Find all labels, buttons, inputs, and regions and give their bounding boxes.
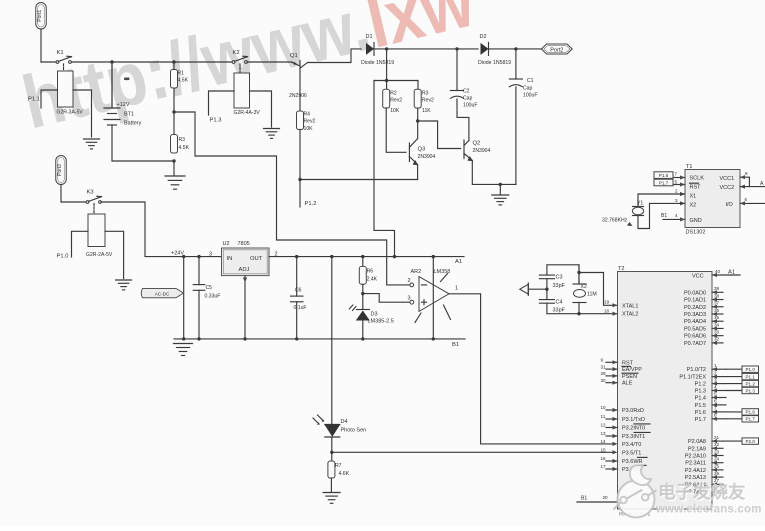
svg-text:OUT: OUT: [250, 256, 263, 262]
svg-text:P2.5A13: P2.5A13: [685, 475, 706, 481]
pin SCLK / net flag P1.6: [673, 177, 685, 179]
wire battery top: [111, 62, 113, 108]
op-amp A1 LM358: [419, 277, 449, 312]
wire oscillator supply: [386, 49, 388, 81]
svg-text:13: 13: [601, 431, 607, 436]
wire Y1 bottom loop: [638, 203, 685, 228]
svg-text:39: 39: [714, 286, 720, 291]
pin RST / net flag P1.7: [673, 184, 685, 186]
svg-text:11K: 11K: [422, 108, 431, 114]
pin P2.3A11: [712, 462, 723, 464]
svg-text:33pF: 33pF: [553, 308, 566, 314]
wire R3 bottom to ground: [173, 161, 175, 175]
svg-text:Rev2: Rev2: [390, 98, 402, 104]
svg-text:R6: R6: [367, 269, 374, 275]
photodiode D4 Photo Sen: [325, 424, 340, 426]
regulator U2 7805: [222, 248, 270, 276]
svg-text:Q1: Q1: [290, 53, 298, 59]
svg-text:K3: K3: [87, 190, 94, 196]
svg-text:7: 7: [714, 406, 717, 411]
ground arrow crystal: [520, 284, 529, 294]
svg-text:40: 40: [715, 269, 721, 274]
svg-text:37: 37: [714, 301, 720, 306]
svg-text:BT1: BT1: [124, 112, 134, 118]
svg-text:P0.1AD1: P0.1AD1: [684, 298, 706, 304]
svg-text:35: 35: [714, 315, 720, 320]
wire D4 to node: [331, 437, 333, 452]
svg-text:P1.7: P1.7: [745, 417, 755, 422]
wire relay K3 right pin to ground: [105, 231, 124, 278]
net flag P2.0: [723, 440, 742, 442]
port flag Port2: [541, 44, 572, 54]
resistor R3 11K: [414, 89, 421, 108]
svg-text:XTAL1: XTAL1: [622, 303, 638, 309]
svg-text:2N2906: 2N2906: [289, 93, 307, 99]
svg-text:30: 30: [601, 378, 607, 383]
svg-text:P1.2: P1.2: [695, 382, 706, 388]
node oscillator ground: [499, 183, 502, 186]
wire R2 top stub: [386, 81, 388, 90]
svg-text:P1.3: P1.3: [210, 118, 222, 124]
wire reference to op-amp plus: [363, 294, 409, 303]
svg-text:R7: R7: [335, 463, 342, 469]
node C5 top: [197, 255, 200, 258]
node C6 top: [295, 255, 298, 258]
wire op-amp output: [449, 294, 613, 444]
battery BT1 +12V: [111, 62, 113, 108]
node R3 bottom: [172, 159, 175, 162]
wire relay K1 left pin to P1.1: [41, 90, 58, 108]
svg-text:SCLK: SCLK: [690, 176, 705, 182]
svg-text:2: 2: [714, 370, 717, 375]
wire C3 branch: [547, 265, 579, 284]
capacitor C2 100uF: [456, 49, 458, 91]
wire +5V rail: [269, 256, 464, 258]
transistor Q1 2N2906: [299, 61, 301, 73]
wire K2 linkage: [239, 64, 241, 73]
node C2 tap: [455, 47, 458, 50]
node C6 ground: [295, 337, 298, 340]
net flag P1.0: [726, 368, 742, 370]
svg-text:10K: 10K: [390, 108, 400, 114]
svg-text:B1: B1: [452, 342, 459, 348]
wire Port3 stub: [60, 185, 62, 203]
svg-text:20: 20: [603, 495, 609, 500]
node oscillator +5V tap: [393, 255, 396, 258]
svg-text:6: 6: [745, 197, 748, 202]
svg-text:10: 10: [601, 405, 607, 410]
svg-text:100uF: 100uF: [523, 93, 537, 99]
svg-text:1: 1: [714, 363, 717, 368]
svg-text:X2: X2: [690, 203, 697, 209]
pin P2.6A14: [712, 483, 723, 485]
svg-text:C4: C4: [556, 300, 563, 306]
pin EA/VPP: [606, 368, 618, 370]
node C3/C4 midpoint: [545, 288, 548, 291]
svg-text:P1.6: P1.6: [659, 173, 669, 178]
svg-text:P1.7: P1.7: [695, 417, 706, 423]
switch K2: [232, 61, 235, 64]
svg-text:+12V: +12V: [117, 102, 130, 108]
pin P1.0/T2: [712, 368, 726, 370]
svg-text:P3.2INT0: P3.2INT0: [622, 426, 645, 432]
wire K3 to +24V rail: [101, 202, 222, 257]
wire R4 bottom: [299, 130, 301, 208]
pin P0.0AD0: [712, 291, 723, 293]
svg-text:3: 3: [714, 377, 717, 382]
node oscillator supply tap: [385, 47, 388, 50]
svg-text:P3.4/T0: P3.4/T0: [622, 442, 641, 448]
svg-text:11: 11: [601, 414, 606, 419]
svg-text:VCC1: VCC1: [720, 176, 735, 182]
svg-text:A: A: [760, 181, 764, 187]
resistor R1 4.5K: [171, 70, 178, 89]
wire VCC1 to VCC2: [749, 177, 765, 186]
svg-text:34: 34: [714, 322, 720, 327]
power flag AC-DC: [141, 289, 183, 298]
ground under relay K2: [264, 128, 280, 130]
svg-text:ADJ: ADJ: [239, 267, 250, 273]
svg-text:P0.7AD7: P0.7AD7: [684, 341, 706, 347]
svg-text:www.elecfans.com: www.elecfans.com: [655, 504, 762, 516]
pin GND 20 / net B1: [577, 501, 618, 503]
svg-text:D1: D1: [366, 34, 373, 40]
pin P3.6WR: [606, 460, 618, 462]
svg-text:P3.1/TxD: P3.1/TxD: [622, 417, 645, 423]
node ADJ ground: [243, 337, 246, 340]
svg-text:Cap: Cap: [523, 86, 533, 92]
svg-text:R4: R4: [304, 112, 311, 118]
svg-text:P3.3INT1: P3.3INT1: [622, 434, 645, 440]
svg-text:5: 5: [714, 391, 717, 396]
svg-text:R2: R2: [390, 91, 397, 97]
svg-text:16: 16: [601, 456, 607, 461]
svg-text:11M: 11M: [587, 291, 597, 297]
net flag P1.2: [726, 383, 742, 385]
svg-text:2.4K: 2.4K: [367, 277, 378, 283]
svg-text:X1: X1: [690, 194, 697, 200]
port flag Port1: [36, 3, 47, 30]
ground under relay K1: [84, 138, 100, 140]
svg-text:32: 32: [714, 337, 720, 342]
svg-text:P1.6: P1.6: [745, 410, 755, 415]
svg-text:P0.3AD3: P0.3AD3: [684, 312, 706, 318]
pin P2.5A13: [712, 476, 723, 478]
wire C3 to node: [546, 279, 548, 300]
pin P0.7AD7: [712, 342, 723, 344]
pin P3.3INT1: [606, 435, 618, 437]
transistor Q2 2N3904: [463, 140, 465, 159]
svg-text:2N3904: 2N3904: [418, 154, 436, 160]
wire node to R7: [331, 452, 333, 461]
svg-text:GND: GND: [690, 218, 702, 224]
svg-text:2: 2: [408, 278, 411, 284]
pin P1.7: [712, 418, 726, 420]
svg-text:D3: D3: [371, 312, 378, 318]
svg-text:P1.4: P1.4: [695, 396, 706, 402]
svg-text:Rev2: Rev2: [304, 119, 316, 125]
node R1 top: [172, 60, 175, 63]
wire coupling to Q2 base: [418, 121, 461, 149]
svg-text:D4: D4: [341, 419, 348, 425]
node D3 ground: [361, 337, 364, 340]
wire ground stem: [499, 184, 501, 194]
svg-text:P3.6WR: P3.6WR: [622, 459, 643, 465]
svg-text:G2R-4A-3V: G2R-4A-3V: [234, 110, 261, 116]
net flag P1.1: [726, 376, 742, 378]
svg-text:RST: RST: [622, 360, 634, 366]
net flag P1.6: [726, 411, 742, 413]
wire AC-DC stub: [183, 257, 185, 339]
svg-text:T1: T1: [686, 164, 692, 170]
svg-text:AC-DC: AC-DC: [155, 292, 170, 297]
pin P0.5AD5: [712, 327, 723, 329]
svg-text:24: 24: [714, 457, 720, 462]
watermark diagonal url text: [15, 0, 482, 144]
wire base node to Q3 emitter: [300, 179, 418, 181]
wire relay K1 right pin to ground: [73, 90, 92, 137]
wire R3 bottom to Q3 collector: [417, 108, 419, 121]
svg-text:C5: C5: [206, 285, 213, 291]
resistor R4 10K: [297, 111, 304, 130]
stray mark: [124, 78, 130, 81]
node crystal bottom: [577, 312, 580, 315]
wire R2 bottom to Q3 base: [386, 108, 406, 152]
pin XTAL1: [613, 303, 618, 307]
wire XTAL1 branch: [579, 273, 618, 306]
pin P2.0A8: [712, 440, 723, 442]
svg-text:P1.2: P1.2: [745, 381, 755, 386]
svg-text:26: 26: [714, 471, 720, 476]
wire K2 to Q1: [247, 61, 292, 63]
pin VCC 40: [712, 274, 740, 276]
svg-text:10K: 10K: [304, 126, 314, 132]
svg-text:22: 22: [714, 442, 720, 447]
svg-text:P0.5AD5: P0.5AD5: [684, 326, 706, 332]
svg-text:P1.3: P1.3: [745, 388, 755, 393]
svg-text:VCC: VCC: [692, 274, 704, 280]
svg-text:U2: U2: [223, 241, 230, 247]
wire D1 to D2: [372, 48, 478, 50]
wire C4 bottom: [547, 303, 618, 314]
node AC-DC ground: [182, 337, 185, 340]
net flag P1.3: [726, 390, 742, 392]
crystal Y1 32.768KHz: [638, 194, 685, 207]
wire D4 node to P3.5: [332, 451, 613, 453]
pin XTAL2: [613, 312, 618, 316]
wire C6 bottom: [296, 302, 298, 339]
capacitor C1 100uF: [515, 49, 517, 79]
switch K3: [86, 201, 89, 204]
watermark elecfans text: [655, 482, 763, 517]
wire K3 linkage: [93, 204, 95, 215]
svg-text:B1: B1: [661, 213, 667, 219]
wire U2 ADJ to ground rail: [244, 276, 246, 339]
relay K1 coil G2R-3A-5V: [58, 71, 74, 107]
pin PSEN: [606, 375, 618, 377]
wire relay K2 right pin to ground: [250, 91, 272, 127]
svg-text:5: 5: [675, 180, 678, 185]
wire K1 linkage: [63, 64, 65, 71]
svg-text:25: 25: [714, 464, 720, 469]
svg-text:P0.0AD0: P0.0AD0: [684, 290, 706, 296]
wire Q1 base to R4: [299, 72, 301, 111]
svg-text:12: 12: [601, 423, 607, 428]
svg-text:0.1uF: 0.1uF: [294, 305, 307, 311]
svg-text:K1: K1: [57, 50, 64, 56]
wire R2/R3 top bracket: [374, 80, 418, 82]
capacitor C5 0.33uF: [193, 284, 205, 286]
pin P0.1AD1: [712, 299, 723, 301]
pin X2: [680, 201, 685, 205]
svg-text:P2.4A12: P2.4A12: [685, 468, 706, 474]
wire divider tap to comparator: [174, 112, 409, 285]
pin P1.1/T2EX: [712, 376, 726, 378]
pin GND 4 / net B1: [663, 218, 685, 220]
node C1 tap: [514, 47, 517, 50]
pin X1: [680, 192, 685, 196]
svg-text:38: 38: [714, 293, 720, 298]
svg-text:P1.0/T2: P1.0/T2: [687, 367, 706, 373]
svg-text:2: 2: [675, 189, 678, 194]
svg-text:XTAL2: XTAL2: [622, 312, 638, 318]
wire R1 bottom to node: [173, 88, 175, 135]
node R2 top: [385, 79, 388, 82]
pin P3.0RxD: [606, 409, 618, 411]
svg-text:3: 3: [675, 198, 678, 203]
wire top rail left (y=62): [41, 61, 57, 63]
pin P3.2INT0: [606, 427, 618, 429]
diode D3 LM385-2.5: [357, 309, 370, 311]
svg-text:6: 6: [714, 399, 717, 404]
resistor R2 10K: [383, 89, 390, 108]
wire ground rail: [174, 338, 465, 340]
svg-text:Q3: Q3: [418, 147, 426, 153]
svg-text:36: 36: [714, 308, 720, 313]
svg-text:P2.0: P2.0: [745, 439, 755, 444]
pin P2.2A10: [712, 455, 723, 457]
switch K1: [56, 61, 59, 64]
svg-text:33pF: 33pF: [553, 283, 566, 289]
svg-text:D2: D2: [480, 34, 487, 40]
wire crystal bottom stub: [578, 303, 580, 314]
node op-amp V- ground: [432, 337, 435, 340]
svg-text:14: 14: [601, 439, 607, 444]
node photodiode feed tap: [330, 255, 333, 258]
wire Port3 to K3: [61, 201, 87, 203]
svg-text:8: 8: [714, 413, 717, 418]
pin P1.6: [712, 411, 726, 413]
resistor R3 4.5K: [171, 135, 178, 154]
svg-text:P2.2A10: P2.2A10: [685, 454, 706, 460]
capacitor C3 33pF: [539, 274, 554, 276]
svg-text:P1.6: P1.6: [695, 410, 706, 416]
svg-text:R3: R3: [179, 137, 186, 143]
svg-text:PSEN: PSEN: [622, 374, 637, 380]
svg-text:P3.5/T1: P3.5/T1: [622, 450, 641, 456]
wire Q1 collector to D1: [308, 49, 362, 63]
svg-text:3: 3: [209, 252, 212, 258]
node C5 ground: [197, 337, 200, 340]
svg-text:G2R-2A-5V: G2R-2A-5V: [86, 252, 113, 258]
node XTAL1 branch: [577, 271, 580, 274]
svg-text:1: 1: [455, 286, 458, 292]
svg-text:P1.3: P1.3: [695, 389, 706, 395]
svg-text:C1: C1: [527, 78, 534, 84]
capacitor C4 33pF: [539, 299, 554, 301]
svg-text:4.6K: 4.6K: [339, 471, 350, 477]
wire D3 bottom: [362, 321, 364, 339]
node op-amp V+ tap: [432, 255, 435, 258]
svg-text:9: 9: [601, 358, 604, 363]
svg-text:P1.1: P1.1: [28, 97, 40, 103]
net flag P1.7: [726, 418, 742, 420]
svg-text:33: 33: [714, 329, 720, 334]
svg-text:P0.6AD6: P0.6AD6: [684, 334, 706, 340]
pin P0.6AD6: [712, 335, 723, 337]
svg-text:C6: C6: [295, 288, 302, 294]
node AC-DC tap: [182, 255, 185, 258]
pin P1.4: [712, 397, 726, 399]
svg-text:21: 21: [714, 435, 720, 440]
svg-text:18: 18: [604, 309, 610, 314]
svg-text:RST: RST: [690, 185, 702, 191]
svg-text:3: 3: [408, 296, 411, 302]
svg-text:IN: IN: [227, 256, 233, 262]
svg-text:K2: K2: [233, 50, 240, 56]
svg-text:R3: R3: [422, 91, 429, 97]
diode D1 1N5819: [366, 43, 374, 55]
svg-text:T2: T2: [618, 266, 624, 272]
svg-text:Cap: Cap: [463, 96, 473, 102]
svg-text:Photo Sen: Photo Sen: [341, 428, 367, 434]
pin P0.4AD4: [712, 320, 723, 322]
svg-text:100uF: 100uF: [463, 103, 477, 109]
svg-text:P0.2AD2: P0.2AD2: [684, 305, 706, 311]
pin P0.2AD2: [712, 306, 723, 308]
svg-text:P1.5: P1.5: [695, 403, 706, 409]
svg-text:R1: R1: [178, 71, 185, 77]
svg-text:Port2: Port2: [550, 47, 563, 53]
svg-text:Diode 1N5819: Diode 1N5819: [478, 60, 511, 66]
crystal X2 11M: [573, 283, 586, 285]
svg-text:电子发烧友: 电子发烧友: [658, 482, 746, 502]
resistor R6 2.4K: [359, 266, 366, 284]
svg-text:Y1: Y1: [637, 201, 643, 207]
svg-text:32.768KHz: 32.768KHz: [602, 218, 628, 224]
pin P3.1/TxD: [606, 418, 618, 420]
svg-text:P1.0: P1.0: [745, 367, 755, 372]
port flag Port3: [56, 156, 67, 185]
ground under relay K3: [116, 279, 132, 281]
pin P3.5/T1: [613, 450, 618, 454]
wire C6 top: [296, 257, 298, 297]
svg-text:A1: A1: [728, 270, 735, 276]
svg-text:VCC2: VCC2: [720, 185, 735, 191]
svg-text:7: 7: [675, 172, 678, 177]
pin ALE: [606, 382, 618, 384]
svg-text:C2: C2: [463, 89, 470, 95]
wire D2 to Port2: [488, 48, 541, 50]
wire relay K3 left pin to P1.0: [72, 231, 89, 257]
svg-text:ALE: ALE: [622, 381, 633, 387]
svg-text:15: 15: [601, 448, 607, 453]
relay K3 coil G2R-2A-5V: [88, 214, 105, 247]
svg-text:DS1302: DS1302: [686, 230, 706, 236]
node Q1 base / P1.2: [298, 178, 301, 181]
wire R7 bottom: [330, 478, 332, 492]
svg-text:0.33uF: 0.33uF: [205, 294, 221, 300]
